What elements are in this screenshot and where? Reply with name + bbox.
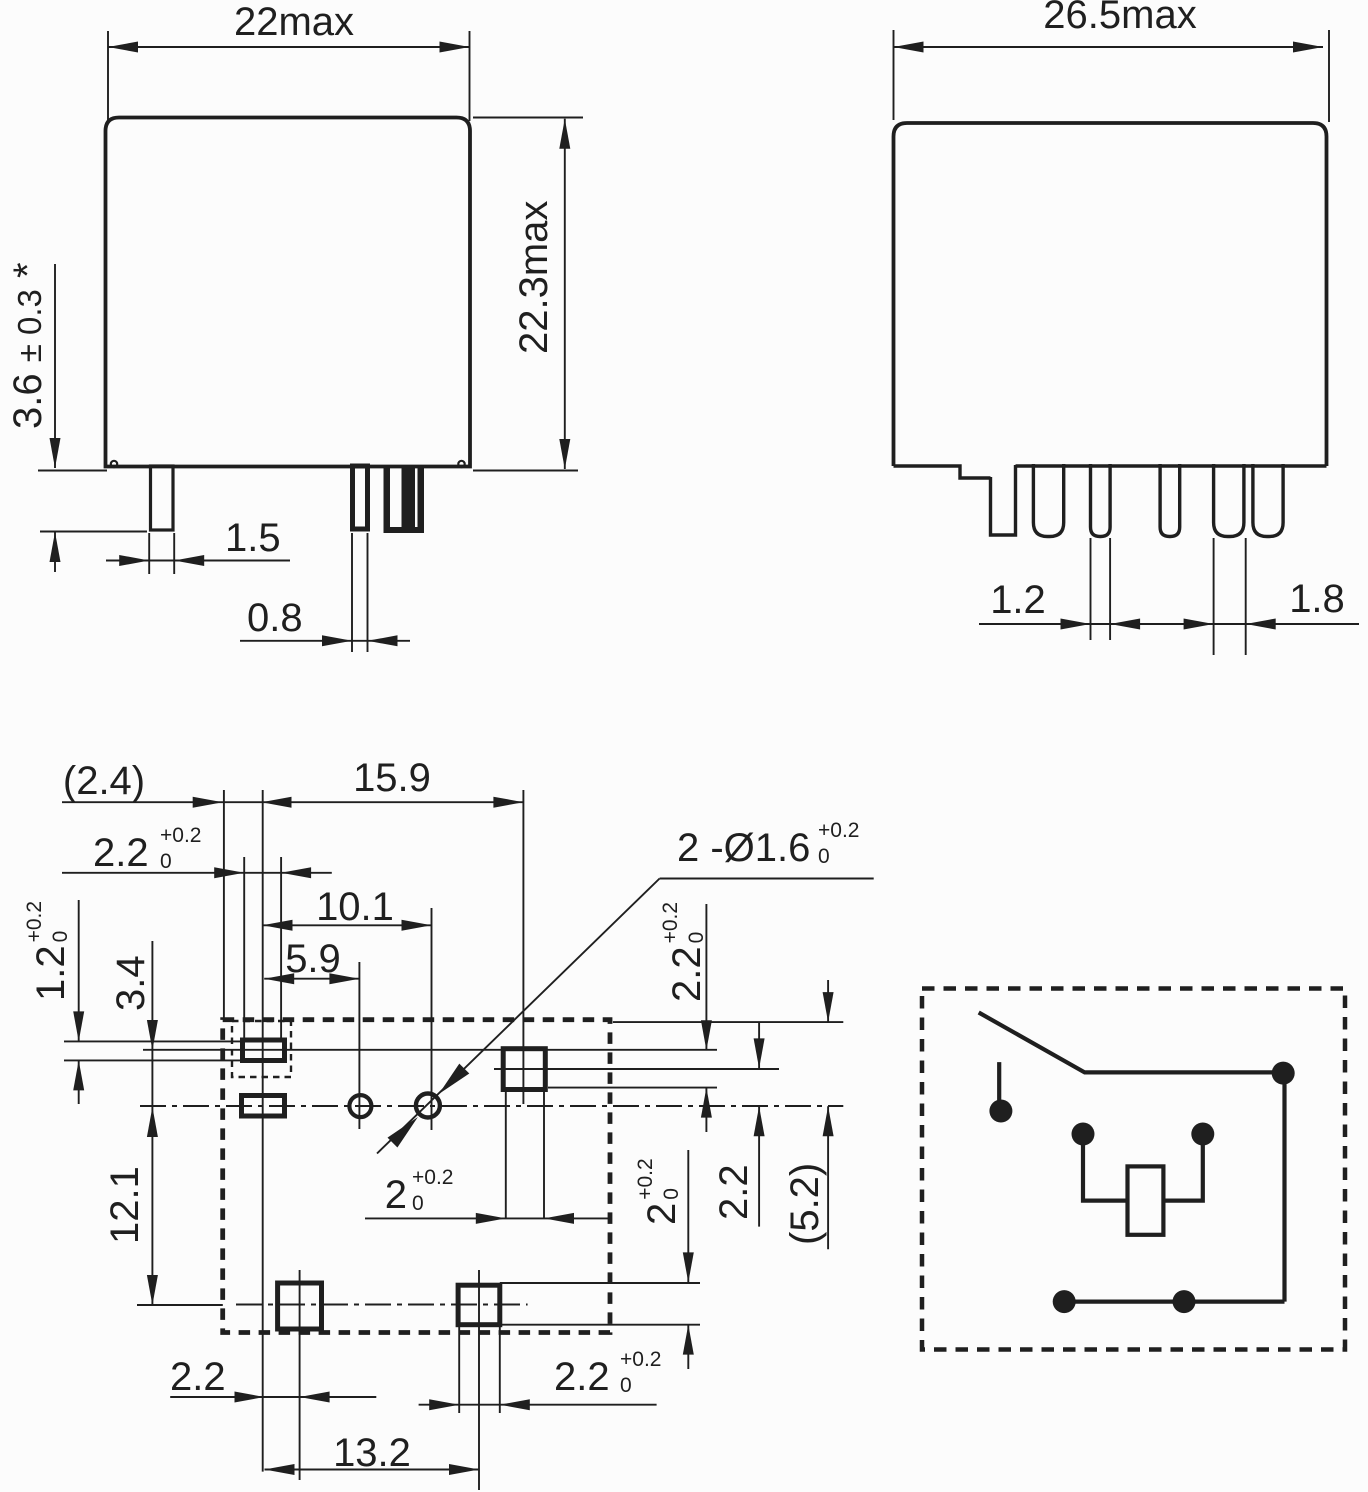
svg-text:0: 0: [412, 1192, 424, 1215]
svg-text:+0.2: +0.2: [620, 1348, 661, 1371]
svg-text:22max: 22max: [234, 0, 354, 44]
svg-text:0: 0: [660, 1188, 683, 1200]
svg-text:2 -Ø1.6: 2 -Ø1.6: [677, 826, 810, 870]
svg-text:5.9: 5.9: [285, 937, 341, 981]
svg-text:13.2: 13.2: [333, 1431, 411, 1475]
svg-text:2.2: 2.2: [665, 946, 709, 1002]
svg-text:+0.2: +0.2: [412, 1166, 453, 1189]
svg-text:26.5max: 26.5max: [1043, 0, 1196, 37]
svg-text:1.2: 1.2: [990, 578, 1046, 622]
svg-text:(2.4): (2.4): [63, 759, 145, 803]
svg-text:2.2: 2.2: [712, 1164, 756, 1220]
svg-text:0: 0: [160, 850, 172, 873]
svg-text:1.8: 1.8: [1289, 577, 1345, 621]
svg-text:+0.2: +0.2: [659, 902, 682, 943]
svg-text:+0.2: +0.2: [818, 819, 859, 842]
svg-text:2.2: 2.2: [170, 1355, 226, 1399]
svg-text:2: 2: [385, 1173, 407, 1217]
svg-text:+0.2: +0.2: [160, 824, 201, 847]
svg-text:0: 0: [818, 845, 830, 868]
svg-text:0.8: 0.8: [247, 596, 303, 640]
svg-text:3.4: 3.4: [109, 955, 153, 1011]
svg-text:2: 2: [640, 1203, 684, 1225]
svg-text:3.6 ± 0.3 *: 3.6 ± 0.3 *: [6, 262, 50, 429]
svg-text:1.5: 1.5: [225, 516, 281, 560]
svg-text:+0.2: +0.2: [23, 901, 46, 942]
svg-text:2.2: 2.2: [554, 1355, 610, 1399]
svg-text:0: 0: [620, 1374, 632, 1397]
svg-text:0: 0: [685, 932, 708, 944]
svg-text:2.2: 2.2: [93, 831, 149, 875]
svg-text:22.3max: 22.3max: [512, 201, 556, 354]
svg-text:10.1: 10.1: [316, 885, 394, 929]
svg-text:+0.2: +0.2: [634, 1158, 657, 1199]
svg-text:12.1: 12.1: [103, 1166, 147, 1244]
svg-text:0: 0: [49, 931, 72, 943]
svg-text:(5.2): (5.2): [783, 1163, 827, 1245]
svg-text:1.2: 1.2: [29, 945, 73, 1001]
svg-text:15.9: 15.9: [353, 756, 431, 800]
